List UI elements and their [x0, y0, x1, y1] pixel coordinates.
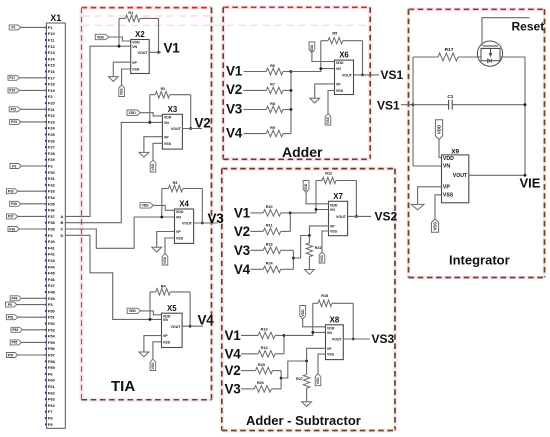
power tag VSS of X9: [431, 219, 438, 232]
op-amp X3: [162, 105, 182, 149]
svg-text:VDD: VDD: [129, 111, 137, 115]
svg-text:R15: R15: [321, 294, 328, 298]
svg-text:VP: VP: [132, 61, 137, 65]
svg-text:V1: V1: [164, 41, 181, 56]
svg-text:V1: V1: [226, 63, 243, 78]
power tag VSS of X5: [150, 359, 156, 371]
port P23: [10, 119, 21, 124]
svg-text:VP: VP: [327, 347, 332, 351]
op-amp X6: [335, 51, 354, 95]
op-amp X2: [131, 30, 150, 73]
svg-text:F32: F32: [48, 182, 56, 187]
power tag VSS of X3: [150, 160, 156, 172]
wire X9 VSS to tag: [435, 195, 442, 219]
resistor R10: [263, 205, 280, 216]
svg-text:F1: F1: [48, 25, 53, 30]
Adder section dashed box: [223, 7, 370, 159]
node X2 VN junction: [118, 45, 121, 48]
svg-text:VSS: VSS: [432, 222, 437, 231]
wire R23/R24 to X7 VP bus: [281, 250, 294, 269]
node bus junctions: [290, 70, 293, 111]
resistor R5 (feedback of X6): [321, 32, 363, 44]
svg-text:F38: F38: [48, 220, 56, 225]
svg-text:F33: F33: [48, 189, 56, 194]
node integrator input junction: [412, 103, 415, 106]
wire VS1 into integrator: [401, 104, 413, 106]
resistor R14: [258, 346, 275, 357]
node X8 VP junction: [305, 360, 308, 363]
port P1: [9, 25, 20, 30]
svg-text:R22: R22: [315, 246, 322, 250]
svg-text:VDD: VDD: [330, 203, 338, 207]
svg-text:V4: V4: [234, 262, 251, 277]
wire V1 input: [241, 334, 258, 336]
wire node A to X2 VN: [65, 46, 130, 216]
node X4 VOUT junction: [201, 222, 204, 225]
svg-text:C1: C1: [447, 94, 453, 100]
svg-text:F5: F5: [48, 302, 53, 307]
wire feedback X4: [162, 189, 203, 224]
wire reset gate: [482, 18, 530, 42]
port P19: [8, 88, 19, 93]
power tag VSS of X6: [325, 114, 331, 125]
wire transistor to right vertical: [500, 56, 525, 58]
power tag VDD of X8: [300, 306, 326, 327]
wire integrator left vertical: [412, 57, 414, 166]
svg-text:F58: F58: [48, 359, 56, 364]
svg-text:VN: VN: [443, 164, 450, 170]
svg-text:P5: P5: [8, 303, 12, 307]
svg-text:P33: P33: [8, 190, 14, 194]
wire R7 to bus: [283, 89, 291, 91]
svg-text:X3: X3: [168, 105, 178, 114]
svg-text:R12: R12: [325, 171, 332, 175]
svg-text:VOUT: VOUT: [342, 74, 353, 78]
svg-text:R10: R10: [266, 205, 273, 209]
op-amp X8: [326, 315, 344, 359]
wire bus to X7 VN: [290, 210, 328, 213]
svg-text:F60: F60: [48, 378, 56, 383]
wire P3 to X1: [21, 165, 46, 167]
node X2 VOUT junction: [157, 51, 160, 54]
svg-text:F57: F57: [48, 353, 56, 358]
svg-text:F15: F15: [48, 63, 56, 68]
port P51: [6, 315, 17, 320]
svg-text:VDD: VDD: [142, 204, 150, 208]
svg-text:F59: F59: [48, 365, 56, 370]
svg-text:VDD: VDD: [129, 309, 137, 313]
svg-text:C: C: [60, 227, 63, 232]
svg-text:X5: X5: [167, 304, 177, 313]
power tag VDD of X3: [127, 110, 162, 116]
svg-text:F6: F6: [48, 371, 53, 376]
svg-text:VP: VP: [443, 184, 450, 190]
svg-text:VDD: VDD: [164, 116, 172, 120]
svg-text:F3: F3: [48, 164, 53, 169]
svg-text:VSS: VSS: [443, 192, 454, 198]
wire X5 VSS to tag: [153, 342, 162, 359]
wire V2 input: [241, 370, 256, 372]
wire V2 input: [244, 89, 267, 91]
svg-text:R2: R2: [161, 87, 166, 91]
wire V1 input: [250, 212, 263, 214]
port P5: [6, 302, 17, 307]
svg-text:F53: F53: [48, 327, 56, 332]
svg-text:VSS: VSS: [316, 377, 320, 385]
power tag VDD of X7: [303, 181, 328, 204]
svg-text:R26: R26: [257, 381, 264, 385]
ground of X8: [302, 402, 312, 407]
svg-text:F23: F23: [48, 119, 56, 124]
svg-text:X6: X6: [339, 51, 349, 60]
resistor R27: [296, 361, 310, 402]
svg-text:Integrator: Integrator: [449, 252, 510, 267]
wire R8 to bus: [283, 109, 291, 111]
resistor R11: [263, 224, 280, 235]
wire R9 to bus: [283, 133, 291, 135]
resistor R7: [266, 83, 283, 94]
svg-text:F54: F54: [48, 334, 56, 339]
node X7 V1V2 junction: [289, 212, 292, 215]
node X7 VP junction: [308, 234, 311, 237]
svg-text:VP: VP: [336, 83, 341, 87]
svg-text:VDD: VDD: [97, 35, 105, 39]
wire feedback X8: [313, 303, 353, 339]
svg-text:X2: X2: [135, 30, 145, 39]
svg-text:R14: R14: [261, 346, 269, 350]
ground of X5: [139, 352, 149, 357]
wire X5 VOUT output: [182, 325, 203, 327]
svg-text:VSS: VSS: [336, 89, 344, 93]
svg-text:R23: R23: [266, 243, 273, 247]
node X3 VN junction: [148, 121, 151, 124]
wire X4 VOUT output: [194, 222, 218, 224]
svg-text:P21: P21: [11, 108, 17, 112]
wire R13/R14 to X8 bus: [275, 335, 284, 353]
svg-text:V3: V3: [225, 381, 242, 396]
ground of X7: [305, 270, 315, 275]
ground of X2: [108, 77, 118, 82]
svg-text:F48: F48: [48, 290, 56, 295]
svg-text:VIE: VIE: [520, 176, 541, 191]
svg-text:R5: R5: [332, 32, 337, 36]
wire P1 to X1: [21, 26, 47, 28]
resistor R24: [263, 262, 280, 273]
svg-text:R17: R17: [445, 47, 454, 53]
wire V4 input: [250, 268, 263, 270]
node X8 VN junction: [311, 331, 314, 334]
svg-text:R1: R1: [128, 11, 133, 15]
svg-text:X1: X1: [50, 13, 61, 23]
svg-text:F51: F51: [48, 315, 56, 320]
wire X3 VSS to tag: [153, 143, 162, 160]
node X7 VOUT junction: [355, 215, 358, 218]
wire X7 VP network: [293, 226, 328, 258]
wire P35 to X1: [21, 203, 46, 205]
svg-text:R24: R24: [266, 262, 274, 266]
svg-text:P1: P1: [11, 26, 15, 30]
svg-text:V1: V1: [225, 328, 242, 343]
op-amp X9: [442, 149, 469, 203]
svg-text:F13: F13: [48, 50, 56, 55]
svg-text:F29: F29: [48, 157, 56, 162]
svg-text:F27: F27: [48, 145, 56, 150]
wire feedback X7: [316, 181, 356, 217]
ground of X4: [152, 247, 162, 252]
svg-text:VSS: VSS: [326, 116, 330, 124]
node X3 VOUT junction: [189, 127, 192, 130]
svg-text:P3: P3: [12, 164, 16, 168]
svg-text:F14: F14: [48, 56, 56, 61]
svg-text:F22: F22: [48, 113, 56, 118]
svg-text:VOUT: VOUT: [332, 338, 343, 342]
resistor R22: [306, 236, 321, 270]
svg-text:P51: P51: [8, 316, 14, 320]
wire X2 VOUT output: [149, 51, 161, 53]
node X5 VN junction: [149, 318, 152, 321]
wire P37 to X1: [18, 215, 47, 217]
power tag VDD of X4: [140, 203, 175, 211]
svg-text:Adder - Subtractor: Adder - Subtractor: [246, 413, 361, 428]
Adder-Subtractor section dashed box: [222, 169, 395, 431]
power tag VSS of X2: [119, 85, 125, 97]
op-amp X4: [175, 200, 194, 244]
wire X9 VN: [413, 165, 442, 167]
power tag VSS of X8: [315, 374, 321, 386]
svg-text:VSS: VSS: [151, 163, 155, 171]
wire X9 VP to ground: [418, 187, 442, 205]
op-amp X5: [162, 304, 183, 348]
svg-text:V4: V4: [226, 125, 243, 140]
transistor Q1 (reset switch): [477, 41, 502, 66]
svg-text:F9: F9: [48, 422, 53, 427]
wire X8 VSS to tag: [318, 354, 326, 374]
wire X7 VSS to tag: [322, 231, 329, 252]
resistor R17: [413, 47, 458, 61]
svg-text:VDD: VDD: [443, 156, 454, 162]
svg-text:F4: F4: [48, 233, 53, 238]
svg-text:VSS: VSS: [176, 237, 184, 241]
node X6 VOUT junction: [361, 74, 364, 77]
svg-text:D: D: [60, 233, 63, 238]
wire adder summing bus: [290, 72, 292, 134]
svg-text:P53: P53: [12, 328, 18, 332]
svg-text:F2: F2: [48, 94, 53, 99]
resistor R9: [266, 126, 283, 137]
resistor R3 (feedback of X4): [162, 181, 203, 192]
wire X8 VP network: [281, 348, 325, 378]
power tag VDD of X2: [95, 34, 130, 41]
svg-text:R8: R8: [270, 102, 275, 106]
wire P17 to X1: [19, 77, 46, 79]
wire P5 to X1: [17, 304, 47, 306]
node integrator output junction: [524, 174, 527, 177]
resistor R15 (feedback of X8): [313, 294, 353, 306]
svg-text:P35: P35: [11, 202, 17, 206]
svg-text:F52: F52: [48, 321, 56, 326]
port P17: [8, 75, 19, 80]
ground of X9: [411, 204, 424, 210]
svg-text:VOUT: VOUT: [453, 173, 468, 179]
svg-text:F42: F42: [48, 252, 56, 257]
svg-text:F50: F50: [48, 308, 56, 313]
svg-text:Reset: Reset: [512, 20, 545, 34]
ground of X6: [310, 98, 320, 103]
svg-text:V4: V4: [198, 313, 215, 328]
op-amp X7: [329, 192, 348, 236]
svg-text:V2: V2: [234, 224, 250, 239]
svg-text:P57: P57: [8, 353, 14, 357]
svg-text:F17: F17: [48, 75, 56, 80]
svg-text:VS2: VS2: [375, 210, 398, 224]
svg-text:VOUT: VOUT: [138, 51, 149, 55]
port P49: [10, 296, 21, 301]
wire integrator right vertical: [524, 57, 526, 175]
node X8 VOUT junction: [352, 338, 355, 341]
node X5 VOUT junction: [189, 325, 192, 328]
wire node B to X3 VN: [65, 122, 162, 222]
connector X1: [46, 13, 65, 428]
node X7 VN junction: [315, 208, 318, 211]
svg-text:VOUT: VOUT: [182, 222, 193, 226]
wire X6 VOUT to VS1: [354, 74, 380, 76]
resistor R13: [258, 328, 275, 339]
connector X1 pins F1-F64 with pin dots: [45, 25, 56, 427]
node X4 VN junction: [160, 216, 163, 219]
wire feedback X2: [119, 18, 159, 52]
wire P39 to X1: [19, 228, 46, 230]
svg-text:F10: F10: [48, 31, 56, 36]
svg-text:VN: VN: [336, 67, 341, 71]
svg-text:VSS: VSS: [320, 255, 324, 263]
wire X4 VSS to tag: [165, 238, 175, 254]
svg-text:F34: F34: [48, 195, 56, 200]
power tag VDD of X5: [127, 308, 161, 315]
svg-text:F35: F35: [48, 201, 56, 206]
resistor R12 (feedback of X7): [316, 171, 356, 183]
svg-text:VSS: VSS: [163, 256, 167, 264]
svg-text:Adder: Adder: [282, 144, 323, 160]
svg-text:X9: X9: [451, 149, 459, 156]
svg-text:F43: F43: [48, 258, 56, 263]
svg-text:VSS: VSS: [132, 68, 140, 72]
svg-text:F49: F49: [48, 296, 56, 301]
svg-text:TIA: TIA: [111, 378, 135, 395]
wire X6 VSS to tag: [328, 91, 335, 114]
wire P49 to X1: [22, 297, 47, 299]
resistor R6: [266, 64, 283, 75]
node C1 right junction: [524, 103, 527, 106]
svg-text:P19: P19: [9, 89, 15, 93]
node X8 V2V3 junction: [280, 377, 283, 380]
svg-text:F39: F39: [48, 227, 56, 232]
svg-text:P23: P23: [11, 120, 17, 124]
svg-text:R3: R3: [173, 181, 178, 185]
power tag VDD of X9: [435, 120, 442, 158]
svg-text:VDD: VDD: [310, 44, 314, 52]
wire R10/R11 to X7 bus: [281, 213, 291, 232]
wire V3 input: [244, 109, 267, 111]
port P57: [6, 353, 17, 358]
wire node D to X5 VN: [65, 235, 161, 319]
Integrator section dashed box: [409, 9, 545, 277]
svg-text:F41: F41: [48, 245, 56, 250]
wire P57 to X1: [18, 354, 47, 356]
wire bus to X6 VN: [291, 69, 335, 72]
wire X3 VOUT output: [182, 128, 202, 130]
wire X8 VOUT to VS3: [343, 338, 369, 340]
svg-text:V2: V2: [226, 82, 242, 97]
svg-text:R13: R13: [261, 328, 268, 332]
wire X9 VOUT: [469, 174, 525, 176]
wire X3 VP to ground: [144, 137, 163, 153]
svg-text:F47: F47: [48, 283, 56, 288]
node X8 V1V4 junction: [283, 334, 286, 337]
port P21: [9, 107, 20, 112]
svg-text:VSS: VSS: [120, 88, 124, 96]
wire X2 VSS to tag: [122, 69, 131, 85]
svg-text:F62: F62: [48, 390, 56, 395]
wire P51 to X1: [18, 316, 47, 318]
svg-text:VOUT: VOUT: [171, 325, 182, 329]
svg-text:VDD: VDD: [176, 210, 184, 214]
svg-text:F36: F36: [48, 208, 56, 213]
svg-text:R11: R11: [266, 224, 273, 228]
port P53: [11, 327, 22, 332]
svg-text:VSS: VSS: [330, 230, 338, 234]
resistor R26: [254, 381, 271, 392]
svg-text:VN: VN: [176, 216, 181, 220]
svg-text:VOUT: VOUT: [336, 215, 347, 219]
svg-text:VDD: VDD: [336, 61, 344, 65]
svg-text:V3: V3: [226, 101, 243, 116]
wire X7 VOUT to VS2: [348, 215, 371, 217]
port P39: [8, 227, 19, 232]
svg-text:F56: F56: [48, 346, 56, 351]
node X7 V3V4 junction: [292, 257, 295, 260]
svg-text:F40: F40: [48, 239, 56, 244]
svg-text:R25: R25: [258, 363, 265, 367]
svg-text:F24: F24: [48, 126, 56, 131]
svg-text:B: B: [60, 220, 63, 225]
resistor R25: [256, 363, 273, 374]
svg-text:A: A: [60, 214, 63, 219]
resistor R2 (feedback of X3): [150, 87, 191, 98]
svg-text:V1: V1: [234, 205, 251, 220]
artifact: faint magenta dashed lines: [83, 16, 369, 25]
wire P55 to X1: [22, 341, 47, 343]
wire P33 to X1: [18, 190, 47, 192]
wire V4 input: [241, 353, 258, 355]
svg-text:VP: VP: [176, 230, 181, 234]
wire X4 VP to ground: [157, 232, 175, 248]
svg-text:R9: R9: [270, 126, 275, 130]
svg-text:V4: V4: [225, 346, 242, 361]
svg-text:VN: VN: [330, 208, 335, 212]
svg-text:VS3: VS3: [372, 332, 395, 346]
power tag VSS of X7: [319, 252, 325, 263]
wire bus to X8 VN: [284, 332, 326, 335]
wire P21 to X1: [21, 108, 47, 110]
connector node labels A B C D: [60, 214, 63, 238]
svg-text:V2: V2: [225, 363, 241, 378]
svg-text:P49: P49: [11, 297, 17, 301]
resistor R23: [263, 243, 280, 254]
svg-text:VDD: VDD: [304, 183, 308, 191]
wire V3 input: [241, 388, 254, 390]
svg-text:VDD: VDD: [436, 125, 441, 134]
svg-text:P55: P55: [11, 341, 17, 345]
